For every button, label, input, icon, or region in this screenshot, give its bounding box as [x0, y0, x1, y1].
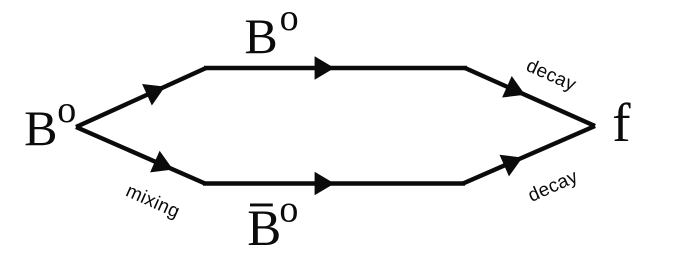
label B0bar (bottom path, with overbar)	[250, 204, 273, 207]
arrowhead upper-right diagonal	[502, 76, 530, 106]
arrowhead top horizontal	[315, 56, 335, 80]
wire top horizontal (B0 upper path)	[204, 66, 467, 70]
arrowhead bottom horizontal	[315, 172, 335, 196]
wire upper-left diagonal (B0 to upper path)	[76, 68, 206, 127]
svg-text:B: B	[24, 100, 57, 156]
svg-text:B: B	[247, 201, 281, 257]
wire lower-right diagonal (lower path to f)	[463, 126, 595, 184]
wire upper-right diagonal (upper path to f)	[465, 68, 595, 126]
arrowhead lower-left diagonal	[150, 151, 178, 181]
svg-text:o: o	[279, 189, 298, 231]
arrowhead upper-left diagonal	[142, 76, 170, 106]
wire bottom horizontal (B0bar lower path)	[203, 181, 465, 185]
svg-text:B: B	[244, 8, 277, 64]
svg-text:f: f	[612, 92, 631, 153]
svg-text:o: o	[57, 89, 76, 131]
svg-text:o: o	[280, 0, 299, 39]
wire lower-left diagonal (B0 to lower path, mixing)	[76, 127, 205, 184]
arrowhead lower-right diagonal	[500, 147, 528, 177]
